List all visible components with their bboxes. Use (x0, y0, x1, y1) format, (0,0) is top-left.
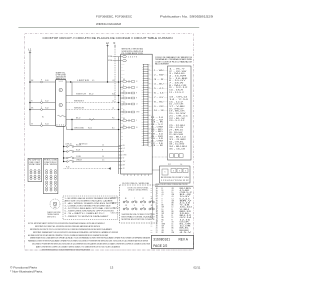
svg-text:1 3 5 7 9: 1 3 5 7 9 (128, 57, 137, 59)
junction dot y129.5 x72 (71, 129, 72, 130)
svg-text:10: 10 (102, 156, 104, 158)
diagram dash-dot frame (25, 34, 194, 250)
ladder rung pin 19 (144, 105, 149, 107)
ladder rung pin 21 (144, 110, 149, 112)
svg-text:V-BU: V-BU (180, 209, 190, 211)
switch contact on left feed y109.5 (41, 109, 43, 111)
svg-text:18 – 10: 18 – 10 (151, 133, 163, 135)
svg-text:14: 14 (156, 215, 158, 217)
svg-text:FGF366EBC, FGF366ESC: FGF366EBC, FGF366ESC (96, 15, 133, 19)
node N arrow (114, 45, 116, 47)
svg-text:RACCORDEMENT: RACCORDEMENT (155, 62, 169, 65)
ladder rung pin 28 (144, 126, 149, 128)
connector view A pins (30, 170, 32, 172)
node L2 arrow (107, 45, 109, 47)
leader tick to table 9 (148, 101, 153, 103)
svg-text:18: 18 (172, 226, 174, 228)
wire ladder row y151.5 (64, 151, 67, 153)
svg-text:35 - 16-18: 35 - 16-18 (169, 148, 185, 150)
svg-text:MOTOR: MOTOR (111, 198, 116, 200)
ladder rung pin 31 (144, 133, 149, 135)
svg-text:Y-18: Y-18 (180, 205, 190, 207)
svg-text:22 - EL-W: 22 - EL-W (169, 118, 186, 120)
svg-text:13: 13 (110, 265, 114, 269)
svg-text:18-EL: 18-EL (180, 213, 191, 215)
wire y129.5 to board (67, 129, 121, 131)
svg-text:TERM. BLOCK: TERM. BLOCK (56, 78, 67, 80)
svg-text:8 - WH-OR: 8 - WH-OR (169, 85, 188, 87)
svg-text:15 – OHM: 15 – OHM (151, 126, 164, 128)
element symbol P2 inside block (59, 103, 62, 106)
leader tick to table 12 (148, 114, 153, 116)
relay K1 inside board (120, 81, 121, 82)
svg-text:V: V (162, 203, 163, 205)
svg-text:OHM: OHM (121, 64, 124, 66)
switch contact on left feed y82 (41, 81, 43, 83)
svg-text:K: K (164, 172, 165, 174)
svg-text:16 - GY-OR: 16 - GY-OR (169, 104, 185, 106)
svg-text:18 - OHM-GY: 18 - OHM-GY (169, 108, 184, 110)
ladder rung pin 20 (144, 107, 149, 109)
svg-text:RD-OR: RD-OR (76, 145, 82, 147)
wire block-out y82 (66, 81, 121, 83)
ladder rung pin 14 (144, 93, 149, 95)
junction dot ladder row y158 (63, 157, 64, 158)
svg-text:MONTRE EN POSITION OUVERTE: MONTRE EN POSITION OUVERTE (122, 219, 155, 221)
svg-text:BU: BU (149, 87, 151, 89)
junction dot ladder row y161.5 (63, 161, 64, 162)
svg-text:V: V (136, 120, 137, 122)
ground lug detail circle (50, 199, 60, 209)
svg-text:22: 22 (156, 232, 158, 234)
svg-text:W-8: W-8 (112, 94, 115, 96)
svg-text:EL: EL (162, 215, 164, 217)
svg-text:BR-18: BR-18 (180, 211, 192, 213)
ladder rung pin 24 (144, 116, 149, 118)
svg-text:BU: BU (121, 123, 123, 125)
wire y119.5 to board (66, 119, 121, 121)
wire ladder rail x63.6 (63, 126, 65, 161)
drawing number box (152, 235, 194, 248)
svg-text:WH: WH (121, 95, 123, 97)
surface unit block SU1 (55, 79, 66, 126)
svg-text:BU: BU (123, 118, 125, 120)
svg-text:RESIST: RESIST (74, 101, 84, 103)
svg-text:P: P (41, 107, 42, 109)
svg-text:18: 18 (172, 217, 174, 219)
svg-text:OHM: OHM (121, 111, 124, 113)
svg-text:8: 8 (156, 203, 157, 205)
svg-text:16: 16 (156, 219, 158, 221)
svg-text:18: 18 (162, 190, 164, 192)
svg-text:12: 12 (102, 145, 104, 147)
svg-text:BK-12: BK-12 (89, 94, 94, 96)
svg-text:18: 18 (156, 224, 158, 226)
svg-text:BK: BK (172, 213, 174, 215)
ladder rung pin 18 (144, 103, 149, 105)
svg-text:2: 2 (156, 190, 157, 192)
relay K3 inside board (120, 92, 121, 93)
svg-text:BK-12: BK-12 (76, 118, 81, 120)
svg-text:CONECTOR EOC: CONECTOR EOC (44, 162, 57, 164)
svg-text:OHM: OHM (121, 73, 124, 75)
svg-text:10: 10 (162, 209, 164, 211)
svg-text:W-14: W-14 (88, 128, 92, 130)
ladder rung pin 1 (144, 64, 149, 66)
svg-text:12-16: 12-16 (180, 219, 191, 221)
svg-text:19: 19 (156, 226, 158, 228)
svg-text:J-2: J-2 (112, 101, 114, 103)
svg-text:L2-1: L2-1 (112, 80, 115, 82)
svg-text:WH: WH (172, 232, 175, 234)
svg-text:Publication No. 5995581529: Publication No. 5995581529 (160, 15, 213, 19)
svg-text:9 – OR: 9 – OR (154, 106, 165, 108)
leader tick to table 6 (148, 87, 153, 89)
svg-text:10: 10 (172, 207, 174, 209)
svg-text:SEE NOTE 2: SEE NOTE 2 (47, 217, 56, 219)
svg-text:17 - V-BK: 17 - V-BK (169, 106, 187, 108)
svg-text:02/11: 02/11 (194, 265, 201, 269)
ladder rung pin 10 (144, 84, 149, 86)
ladder rung pin 22 (144, 112, 149, 114)
leader tick to table 15 (148, 128, 153, 130)
svg-text:P-16: P-16 (66, 167, 69, 169)
svg-text:BK: BK (162, 205, 164, 207)
header rule (18, 27, 199, 29)
svg-text:R: R (136, 98, 137, 100)
svg-text:GY: GY (172, 190, 174, 192)
svg-text:N: N (114, 42, 116, 45)
svg-text:12 – W: 12 – W (151, 119, 164, 121)
svg-text:10 – 18: 10 – 18 (154, 110, 164, 112)
svg-text:OR: OR (125, 205, 127, 207)
svg-text:19 - BK-OR: 19 - BK-OR (169, 111, 186, 113)
svg-text:OHM: OHM (121, 126, 124, 128)
svg-text:V: V (162, 198, 163, 200)
leader tick to table 13 (148, 119, 153, 121)
svg-text:UNLOCK: UNLOCK (111, 213, 117, 215)
connector box P12 outline (160, 166, 191, 183)
svg-text:GY: GY (149, 64, 151, 66)
svg-text:34 - BU-BU: 34 - BU-BU (169, 146, 187, 148)
svg-text:Y: Y (134, 198, 135, 200)
ladder rung pin 2 (144, 66, 149, 68)
svg-text:B-12: B-12 (45, 108, 48, 110)
ladder rung pin 25 (144, 119, 149, 121)
svg-text:5.2: 5.2 (172, 198, 174, 200)
svg-text:4.5-BK: 4.5-BK (180, 190, 190, 192)
svg-text:4.5: 4.5 (92, 80, 94, 82)
svg-text:28 - RD-SW: 28 - RD-SW (169, 132, 183, 134)
svg-text:10: 10 (156, 207, 158, 209)
svg-text:21: 21 (156, 230, 158, 232)
leader tick to table 19 (148, 145, 153, 147)
svg-text:BR: BR (123, 79, 125, 81)
svg-text:16: 16 (172, 224, 174, 226)
svg-text:26 - 12-W: 26 - 12-W (169, 127, 184, 129)
wire list table header underline (155, 185, 193, 187)
svg-text:7: 7 (156, 200, 157, 202)
svg-text:4 – BU: 4 – BU (154, 83, 165, 85)
svg-text:2 – SW: 2 – SW (154, 74, 164, 76)
ladder rung pin 5 (144, 73, 149, 75)
connector view B pins (46, 170, 48, 172)
svg-text:OHM: OHM (121, 70, 124, 72)
leader tick to table 1 (148, 65, 153, 67)
svg-text:COOKTOP CIRCUIT // CIRCUITO DE: COOKTOP CIRCUIT // CIRCUITO DE PLACAS DE… (43, 36, 173, 40)
leader tick to table 11 (148, 110, 153, 112)
switch symbol ladder row y158 (67, 157, 69, 159)
svg-text:B-10: B-10 (45, 80, 48, 82)
svg-text:VUE / VIEW B: VUE / VIEW B (44, 164, 57, 166)
svg-text:22 – 16: 22 – 16 (151, 143, 163, 145)
board pin lower-left 3 (119, 151, 123, 153)
svg-text:SENSOR: SENSOR (74, 108, 85, 110)
leader tick to table 10 (148, 105, 153, 107)
svg-text:EL: EL (42, 117, 44, 119)
svg-text:1 – WH: 1 – WH (154, 70, 165, 72)
board pin lower-left 6 (119, 161, 123, 163)
relay K4 inside board (120, 97, 121, 98)
board pin lower-left 2 (119, 148, 123, 150)
frame bottom solid overlay (25, 249, 193, 251)
svg-text:B-14: B-14 (45, 124, 48, 126)
svg-text:GY: GY (172, 221, 174, 223)
leader tick to table 17 (148, 137, 153, 139)
svg-text:21 – OHM: 21 – OHM (151, 141, 164, 143)
svg-text:14: 14 (136, 104, 138, 106)
svg-text:B-12: B-12 (45, 101, 48, 103)
svg-text:20 - 10-SW: 20 - 10-SW (169, 113, 187, 115)
switch symbol ladder row y146.5 (67, 146, 69, 148)
svg-text:12: 12 (156, 211, 158, 213)
svg-text:BU: BU (149, 69, 151, 71)
svg-text:316080161: 316080161 (153, 238, 170, 242)
svg-text:32 - OR-EL: 32 - OR-EL (169, 141, 184, 143)
svg-text:WIRE COLOR CODE / CODIGO DE CO: WIRE COLOR CODE / CODIGO DE COLOR (156, 184, 189, 186)
wire ladder row y158 (64, 157, 67, 159)
ladder rung pin 9 (144, 82, 149, 84)
svg-text:CONN / CONECT: CONN / CONECT (29, 162, 41, 164)
svg-text:10-GY: 10-GY (180, 196, 190, 198)
svg-text:5: 5 (156, 196, 157, 198)
leader tick to table 4 (148, 78, 153, 80)
leader tick to table 3 (148, 74, 153, 76)
svg-text:OHM-W: OHM-W (76, 160, 82, 162)
svg-text:P: P (60, 105, 61, 107)
svg-text:WH: WH (172, 194, 175, 196)
ladder rung pin 34 (144, 139, 149, 141)
svg-text:SWITCH: SWITCH (76, 94, 87, 96)
svg-text:1: 1 (156, 188, 157, 190)
svg-text:23 - 5.2-12: 23 - 5.2-12 (169, 120, 185, 122)
switch symbol ladder row y151.5 (67, 151, 69, 153)
svg-text:3 - WH-EL: 3 - WH-EL (169, 73, 186, 75)
element coil squiggle inside block (58, 115, 66, 117)
ladder rung pin 15 (144, 96, 149, 98)
svg-text:4.5-18: 4.5-18 (180, 203, 191, 205)
svg-text:20: 20 (156, 228, 158, 230)
svg-text:BK: BK (149, 115, 151, 117)
right table tall box outline (168, 66, 192, 160)
block bottom tick marks (56, 124, 58, 125)
ladder rung pin 12 (144, 89, 149, 91)
relay K6 inside board (120, 111, 121, 112)
svg-text:L1 BK-10: L1 BK-10 (65, 144, 72, 146)
svg-text:BR-V: BR-V (180, 200, 192, 202)
svg-text:4.5: 4.5 (102, 160, 104, 162)
svg-text:9: 9 (156, 205, 157, 207)
leader tick to table 14 (148, 123, 153, 125)
ladder rung pin 3 (144, 68, 149, 70)
ladder rung pin 35 (144, 142, 149, 144)
board pin lower-left 1 (119, 145, 123, 147)
ladder rung pin 29 (144, 128, 149, 130)
wire board bus x118.5 (118, 57, 120, 174)
svg-text:SHOWN IN UNLOCKED POSITION: SHOWN IN UNLOCKED POSITION (122, 214, 155, 216)
svg-text:5.2: 5.2 (121, 89, 123, 91)
svg-text:P: P (60, 90, 61, 92)
leader tick to table 2 (148, 69, 153, 71)
lock switch detail contacts row 2 (123, 208, 125, 210)
svg-text:LOCK: LOCK (113, 208, 117, 210)
svg-text:15: 15 (156, 217, 158, 219)
board bottom edge ticks (123, 174, 125, 176)
wire vertical link x72 y82-95.5 (71, 82, 73, 96)
svg-text:4.5: 4.5 (172, 196, 174, 198)
svg-text:EL: EL (136, 127, 138, 129)
right table bottom cell strip (170, 154, 174, 158)
svg-text:9 - 12-12: 9 - 12-12 (169, 87, 188, 89)
svg-text:29 - BK-OHM: 29 - BK-OHM (169, 134, 184, 136)
svg-text:P8 EOC CONN: P8 EOC CONN (44, 160, 57, 162)
svg-text:* Non-Illustrated Parts.: * Non-Illustrated Parts. (10, 270, 43, 274)
leader tick to table 5 (148, 83, 153, 85)
svg-text:5 - SWITCHES SHOWN IN OFF POSI: 5 - SWITCHES SHOWN IN OFF POSITION (65, 211, 114, 213)
svg-text:BU: BU (123, 145, 125, 147)
svg-text:V: V (162, 200, 163, 202)
svg-text:CLOCK / RELOJ / HORLOGE: CLOCK / RELOJ / HORLOGE (122, 183, 149, 185)
svg-text:27 - BR-16: 27 - BR-16 (169, 130, 183, 132)
svg-text:5.2-4.5: 5.2-4.5 (180, 198, 191, 200)
svg-text:33 - 10-SW: 33 - 10-SW (169, 144, 185, 146)
svg-text:5.2: 5.2 (121, 117, 123, 119)
svg-text:GND: GND (54, 207, 57, 209)
svg-text:14: 14 (136, 87, 138, 89)
wire ladder row y161.5 (64, 161, 67, 163)
svg-text:19 – SW: 19 – SW (151, 136, 164, 138)
svg-text:7 - 18-W: 7 - 18-W (169, 83, 185, 85)
ladder rung pin 36 (144, 144, 149, 146)
svg-text:GY: GY (121, 120, 123, 122)
svg-text:P12: P12 (168, 164, 171, 166)
svg-text:4 - 16-WH: 4 - 16-WH (169, 75, 186, 77)
legend box outline (63, 196, 118, 220)
svg-text:13 - OR-14: 13 - OR-14 (169, 97, 188, 99)
svg-text:5.2-BU: 5.2-BU (76, 156, 82, 158)
svg-text:BU-12: BU-12 (180, 215, 192, 217)
connector ladder P1 strip (143, 64, 145, 146)
svg-text:P4 SURF SW: P4 SURF SW (29, 160, 41, 162)
ladder rung pin 7 (144, 77, 149, 79)
connector view A outline (28, 158, 42, 181)
ladder rung pin 11 (144, 87, 149, 89)
connector box P12 inner relay rect (162, 169, 168, 175)
switch contact on left feed y102.5 (41, 102, 43, 104)
svg-text:LIMITER: LIMITER (77, 80, 91, 82)
svg-text:5.2: 5.2 (142, 198, 144, 200)
element symbol P1 inside block (59, 88, 62, 91)
svg-text:6: 6 (156, 198, 157, 200)
wire left feed y82 (30, 81, 41, 83)
svg-text:BR: BR (121, 135, 123, 137)
junction dot L2 (107, 81, 108, 82)
svg-text:5.2: 5.2 (123, 148, 125, 150)
svg-text:WIRING DIAGRAM: WIRING DIAGRAM (96, 22, 121, 26)
wire left feed y102.5 (30, 102, 41, 104)
svg-text:6 – 14: 6 – 14 (154, 92, 164, 94)
board pin lower-left 4 (119, 154, 123, 156)
svg-text:11: 11 (156, 209, 158, 211)
ladder rung pin 6 (144, 75, 149, 77)
connector view B outline (43, 158, 58, 193)
svg-text:14: 14 (172, 230, 174, 232)
control board EOC outline (121, 54, 153, 174)
svg-text:Y: Y (162, 196, 163, 198)
svg-text:RD: RD (125, 198, 127, 200)
svg-text:BK-EL: BK-EL (180, 228, 190, 230)
svg-text:3: 3 (156, 192, 157, 194)
leader tick to table 18 (148, 141, 153, 143)
svg-text:6 - 10-GY: 6 - 10-GY (169, 80, 186, 82)
svg-text:4.5: 4.5 (162, 194, 164, 196)
svg-text:5 – 4.5: 5 – 4.5 (154, 88, 164, 90)
svg-text:4: 4 (156, 194, 157, 196)
svg-text:P: P (41, 100, 42, 102)
junction dot ladder row y146.5 (63, 146, 64, 147)
relay K7 inside board (120, 120, 121, 121)
svg-text:11 - 12-5.2: 11 - 12-5.2 (169, 92, 184, 94)
wire vertical link x72 y119.5-129.5 (71, 120, 73, 130)
ladder rung pin 4 (144, 70, 149, 72)
wire block bottom drop x66.5 (66, 126, 68, 129)
svg-text:GY: GY (149, 82, 151, 84)
ladder rung pin 13 (144, 91, 149, 93)
ladder rung pin 17 (144, 100, 149, 102)
board pin lower-left 8 (119, 168, 123, 170)
leader tick to table 7 (148, 92, 153, 94)
svg-text:1 4 1 2: 1 4 1 2 (59, 81, 63, 83)
wire dotted bottom row y168.5 (64, 168, 108, 170)
wire y109.5 dotted to board (66, 109, 121, 111)
svg-text:GROUND: GROUND (74, 128, 85, 130)
board pin lower-left 7 (119, 164, 123, 166)
wire bundle leader right side (151, 146, 153, 219)
relay K5 inside board (120, 103, 121, 104)
svg-text:N-5: N-5 (112, 128, 115, 130)
junction dots on bus (118, 81, 119, 82)
arrow terminal on dotted row (108, 167, 111, 169)
lock switch detail contacts row 1 (123, 201, 125, 203)
relay K2 inside board (120, 87, 121, 88)
wire left feed y109.5 (30, 109, 41, 111)
svg-text:REV A: REV A (179, 238, 189, 242)
junction dot L1-C (29, 109, 31, 111)
ladder rung pin 8 (144, 80, 149, 82)
svg-text:OHM: OHM (121, 129, 124, 131)
junction dot y119.5 x72 (71, 119, 72, 120)
svg-text:R: R (123, 85, 124, 87)
